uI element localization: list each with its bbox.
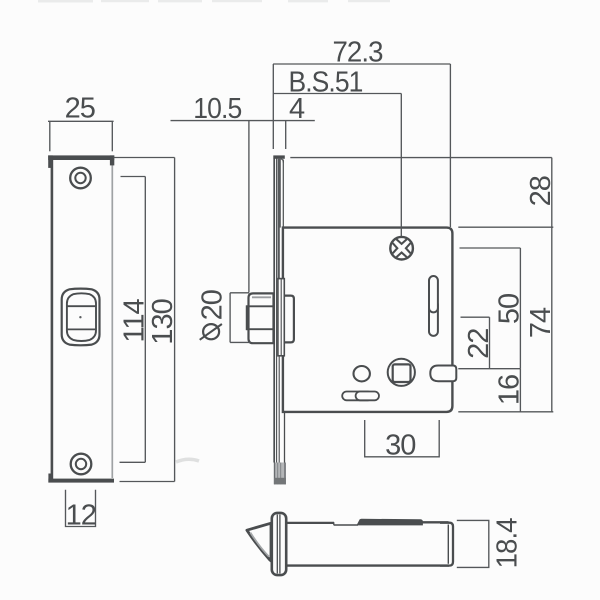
latch flange inner line — [280, 279, 282, 355]
dim 10.5 and 4 shared line — [171, 120, 315, 122]
latch opening outer barrel — [62, 289, 100, 346]
svg-text:10.5: 10.5 — [193, 93, 241, 125]
top screw hole inner — [75, 173, 85, 183]
ext line at faceplate front — [272, 64, 274, 149]
dim 130 vertical — [174, 158, 176, 482]
wedge inner shading — [250, 533, 269, 557]
step connector left — [333, 522, 335, 525]
dim 74 vertical — [551, 227, 553, 412]
dim 16 vertical — [519, 369, 521, 412]
latch opening inner barrel — [67, 293, 96, 341]
case top edge segment 1 — [286, 522, 334, 524]
svg-text:74: 74 — [525, 307, 557, 338]
dim 22 vertical — [489, 317, 491, 369]
case top edge segment 2 — [423, 521, 449, 523]
mount plate line B upper — [278, 159, 280, 279]
faceplate front line — [273, 159, 275, 463]
screw head circle — [390, 237, 413, 260]
dim phi20 bracket vertical — [229, 293, 231, 343]
svg-text:16: 16 — [494, 375, 526, 405]
mount plate line A — [277, 159, 279, 279]
hub square — [393, 364, 411, 382]
raised dark ridge — [357, 519, 423, 526]
flange bar inner line 1 — [276, 515, 278, 574]
svg-text:18.4: 18.4 — [491, 518, 523, 569]
mount plate lower edge — [284, 412, 286, 463]
hub circle — [388, 359, 415, 386]
dim 130 top tick — [114, 157, 175, 159]
latch face band bottom line — [67, 328, 96, 330]
plate top bar left tab — [48, 155, 53, 168]
grey tip bottom band — [274, 478, 286, 485]
dim 12 bracket — [66, 490, 96, 527]
svg-text:50: 50 — [493, 294, 525, 324]
dim 16/50 shared tick — [458, 368, 520, 370]
faint scan swoosh artifact — [176, 459, 199, 462]
svg-text:25: 25 — [65, 93, 95, 125]
plate bottom bar left tab — [48, 474, 52, 483]
faceplate back line — [276, 159, 278, 463]
ext line at case front — [285, 121, 287, 149]
svg-text:72.3: 72.3 — [333, 37, 383, 69]
dim 72.3 right ext — [449, 64, 451, 227]
mount plate edge D — [282, 160, 284, 228]
vertical slot upper pill — [429, 276, 438, 312]
dim 25 ext right — [111, 121, 113, 151]
flange bar inner line 2 — [279, 515, 281, 574]
dim phi20 bottom tick — [230, 341, 250, 343]
plate bottom bar — [48, 479, 114, 483]
dim phi20 text — [196, 290, 228, 340]
dim 50 tick top — [460, 247, 521, 249]
svg-text:4: 4 — [289, 93, 305, 125]
latch head outer — [249, 293, 274, 343]
plate right edge — [111, 159, 113, 478]
plate top bar — [48, 155, 114, 160]
grey hatched tip of faceplate — [274, 463, 286, 485]
latch head mid band — [247, 306, 274, 329]
ext line case top right — [458, 226, 553, 228]
svg-text:20: 20 — [196, 290, 228, 320]
scan remnants top — [38, 0, 390, 3]
case right inner line — [447, 525, 449, 564]
svg-text:22: 22 — [463, 329, 495, 359]
svg-text:130: 130 — [147, 299, 179, 344]
dim 114 top tick — [121, 176, 146, 178]
dim 22 tick top — [461, 316, 490, 318]
right edge tab — [430, 366, 456, 382]
svg-text:30: 30 — [385, 430, 415, 462]
latch center dot — [79, 316, 81, 318]
mount plate line B lower — [278, 356, 280, 463]
plate top bar right tab — [110, 155, 114, 165]
svg-text:12: 12 — [66, 499, 96, 531]
bottom screw hole inner — [76, 459, 86, 469]
dim 114 vertical — [144, 177, 146, 463]
ext line case bottom right — [458, 411, 553, 413]
dim BS51 line — [273, 93, 401, 95]
svg-text:28: 28 — [525, 176, 557, 206]
latch flange plate — [278, 279, 284, 356]
small circle — [354, 366, 370, 381]
latch head top shading — [252, 296, 271, 298]
ext line to latch tip — [248, 121, 250, 293]
dim 25 line — [48, 120, 114, 122]
latch face band top line — [67, 305, 96, 307]
dim 50 vertical — [519, 248, 521, 369]
case bottom edge — [286, 564, 449, 566]
dim 30 bracket — [365, 420, 440, 457]
recessed edge line — [334, 524, 358, 526]
latch collar behind plate — [284, 296, 294, 343]
bottom screw hole outer — [71, 454, 92, 475]
dim 130 bottom tick — [120, 481, 175, 483]
horizontal capsule right pill — [356, 392, 379, 401]
mount plate top corner arc — [281, 159, 284, 163]
dim phi20 top tick — [230, 292, 249, 294]
dim 25 ext left — [49, 121, 51, 151]
dim 18.4 bracket — [457, 520, 489, 567]
latch wedge tip — [247, 523, 271, 561]
BS51 leader to screw — [400, 94, 402, 237]
dim 114 bottom tick — [120, 461, 146, 463]
plate left edge — [51, 158, 54, 480]
faceplate top cap — [273, 155, 285, 158]
top screw hole outer — [70, 168, 91, 189]
screw phillips cross outline — [393, 239, 411, 257]
dim 28 vertical — [551, 158, 553, 228]
mount plate line C — [279, 159, 281, 228]
grey tip dark lines — [274, 463, 276, 485]
case right end — [440, 523, 453, 566]
lock case body — [283, 228, 453, 412]
horizontal capsule — [342, 392, 372, 401]
flange bar — [272, 513, 286, 575]
ext line faceplate top right — [290, 157, 552, 159]
svg-text:114: 114 — [119, 299, 151, 343]
vertical slot lower pill — [429, 301, 438, 336]
dim 72.3 line — [273, 63, 450, 65]
latch head mid band left edge — [246, 305, 249, 330]
